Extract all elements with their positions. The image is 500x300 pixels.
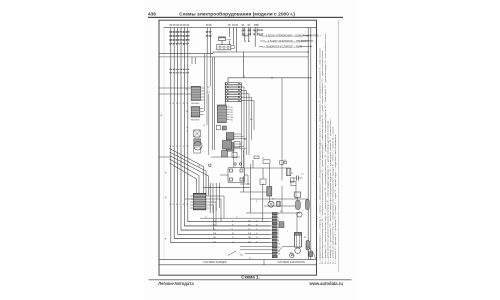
- electric motor M1 (circle in bracket): [194, 142, 202, 150]
- distributor cap circle: [290, 253, 294, 257]
- svg-text:438: 438: [148, 11, 156, 16]
- svg-text:13: 13: [186, 111, 188, 113]
- svg-text:1: 1: [278, 214, 279, 216]
- coil feed wire: [296, 212, 298, 232]
- wire ignition feed B: [236, 27, 238, 52]
- distributor to ECU verticals: [210, 183, 219, 213]
- internal bottom rail: [159, 264, 317, 266]
- ignition switch side pin: [231, 46, 234, 49]
- svg-text:Схема 1.: Схема 1.: [241, 275, 259, 280]
- svg-text:6: 6: [278, 231, 279, 233]
- connector X3 (centre dark tall): [217, 105, 229, 123]
- horizontal mid bus from frame: [159, 156, 170, 158]
- bus label dashes: [169, 30, 263, 44]
- idle valve capsule: [296, 200, 301, 209]
- injector capsule: [306, 200, 310, 210]
- internal top rail: [164, 26, 317, 28]
- terminal strip (stacked dark cells): [272, 213, 277, 258]
- diagonal lane-change wires: [170, 149, 209, 196]
- relay K (small box top centre): [219, 37, 226, 41]
- relay module 2: [222, 151, 228, 158]
- mid horizontal wire with junctions: [203, 186, 250, 188]
- svg-text:СИСТЕМА ЗАЖИГАНИЯ: СИСТЕМА ЗАЖИГАНИЯ: [277, 261, 305, 264]
- svg-text:10: 10: [278, 244, 280, 246]
- ECU connector (dark block): [190, 193, 209, 209]
- svg-text:— К БЛОКУ УПРАВЛЕНИЯ — КОМБИНА: — К БЛОКУ УПРАВЛЕНИЯ — КОМБИНАЦИЯ ПРИБ. …: [263, 34, 323, 37]
- staircase wire labels: [205, 217, 238, 244]
- wire run label 1: [263, 34, 323, 37]
- scattered component labels: [203, 87, 307, 261]
- svg-text:8: 8: [278, 237, 279, 239]
- svg-text:1 — аккумуляторная батарея; 2: 1 — аккумуляторная батарея; 2 — генерато…: [319, 142, 322, 264]
- svg-text:РАЗЪЕМ: РАЗЪЕМ: [191, 119, 200, 122]
- fuse block F: ladder of 6 fuses: [225, 78, 241, 105]
- svg-text:24 — датчик абсолютного давлен: 24 — датчик абсолютного давления во впус…: [326, 120, 329, 264]
- sensor symbols above bottom band: [228, 251, 294, 256]
- ignition coil: [294, 232, 301, 253]
- svg-text:З — зеленый; К — красный; О —: З — зеленый; К — красный; О — оранжевый;…: [334, 133, 337, 264]
- svg-text:10 — датчик положения коленчат: 10 — датчик положения коленчатого вала; …: [321, 145, 324, 264]
- X1 side labels: [186, 89, 188, 113]
- idle valve box: [294, 192, 301, 197]
- wire pair to ignition switch: [207, 27, 210, 53]
- right vertical double bus: [307, 27, 309, 259]
- svg-text:Ж: Ж: [183, 146, 185, 148]
- horizontal bus y56.9: [159, 56, 308, 58]
- stub wires below ignition bus: [192, 57, 195, 64]
- svg-text:2: 2: [278, 217, 279, 219]
- small box pair under X3: [216, 125, 220, 130]
- schematic outer frame: [159, 20, 317, 275]
- svg-text:Ж: Ж: [183, 204, 185, 206]
- relay block K2 (upper): [223, 141, 241, 150]
- svg-text:9: 9: [278, 240, 279, 242]
- relay module small: [232, 153, 237, 158]
- terminal strip pin numbers: [278, 214, 280, 256]
- sensor with pins: [286, 168, 290, 175]
- connector X4 hatched: [226, 133, 246, 140]
- mid small component row: [263, 160, 270, 164]
- distributor with cross wires: [228, 163, 245, 183]
- wires mid right: [244, 78, 309, 213]
- svg-text:Ж: Ж: [183, 103, 185, 105]
- labels on wire pair: [206, 32, 211, 38]
- small sensor circle: [297, 212, 302, 217]
- bus label dashes row2: [169, 69, 189, 74]
- secondary strip: [279, 222, 284, 228]
- svg-text:СИСТЕМА ЗАРЯДКИ: СИСТЕМА ЗАРЯДКИ: [203, 261, 227, 264]
- svg-text:РАЗЪЕМ: РАЗЪЕМ: [191, 102, 200, 105]
- svg-text:Ж: Ж: [232, 233, 234, 235]
- svg-text:Легион-Автодата: Легион-Автодата: [158, 281, 194, 286]
- small module plain: [194, 147, 201, 153]
- small module with cross: [194, 130, 200, 137]
- wire drops from connectors: [205, 54, 211, 155]
- svg-text:13: 13: [278, 254, 280, 256]
- wires from ECU right: [185, 196, 224, 230]
- main horizontal bus y52: [213, 52, 308, 54]
- svg-text:замок заж.: замок заж.: [217, 51, 227, 53]
- connector X5 hatched: [226, 143, 246, 152]
- svg-text:7: 7: [278, 234, 279, 236]
- svg-text:32 — контрольная лампа диагнос: 32 — контрольная лампа диагностики; 33 —…: [332, 126, 335, 264]
- connector X1 (dark, left column): [191, 86, 205, 105]
- wire labels near strip: [210, 220, 258, 243]
- capacitor C1: [297, 176, 299, 181]
- svg-text:— ГЕНЕРАТОР И СТАРТЕР — РЕЛЕ —: — ГЕНЕРАТОР И СТАРТЕР — РЕЛЕ —: [263, 45, 306, 48]
- labels above top rail: [170, 24, 259, 25]
- svg-text:12: 12: [186, 89, 188, 91]
- inner faint frame line: [163, 27, 165, 259]
- label underline 3: [262, 47, 299, 49]
- svg-text:Схемы электрооборудования (мод: Схемы электрооборудования (модели с 2000…: [179, 10, 295, 17]
- arc wire to corner: [306, 246, 316, 259]
- small box: [291, 181, 296, 185]
- svg-text:— К ЗАМКУ ЗАЖИГАНИЯ — ПРЕДОХРА: — К ЗАМКУ ЗАЖИГАНИЯ — ПРЕДОХРАНИТ. —: [265, 40, 317, 43]
- main horizontal bus y53.6: [159, 53, 213, 55]
- svg-text:—: —: [210, 224, 212, 226]
- top right feed wires: [243, 27, 257, 77]
- ignition coil primary resistor: [267, 187, 272, 197]
- bottom band separator: [159, 259, 317, 261]
- legend column (rotated description text): [319, 33, 338, 264]
- stub wires joining labels to bus: [259, 36, 311, 47]
- wire colour code labels on left bus: [169, 32, 190, 46]
- feeder wires into terminal strip: [171, 218, 272, 253]
- junction dots on right bus: [308, 35, 312, 79]
- labels on top right feeds: [242, 31, 258, 36]
- junction dot: [271, 77, 272, 78]
- extra mid wires: [240, 150, 270, 192]
- resistor block: [280, 161, 284, 165]
- horizontal bus y77.8: [228, 77, 311, 79]
- svg-text:КЗ —: КЗ —: [198, 166, 204, 168]
- lamp L1: [268, 201, 274, 207]
- wires around distributor: [213, 149, 248, 185]
- label underline 2: [264, 41, 300, 43]
- wire to strip from relay area: [250, 164, 252, 213]
- svg-text:27 — тахометр; 28 — реле старт: 27 — тахометр; 28 — реле стартера; 29 — …: [329, 118, 332, 264]
- svg-text:11: 11: [278, 247, 280, 249]
- bus mid-height labels: [169, 103, 188, 206]
- wire bus left: 6 vertical feed wires with staircase bends: [171, 27, 270, 242]
- ignition switch S1: [217, 45, 231, 50]
- tiny sensor group: [187, 126, 189, 133]
- bottom band divider: [263, 260, 265, 265]
- small module hatched: [194, 139, 201, 146]
- footer rule: [149, 278, 352, 281]
- wire from frame top to relay: [222, 27, 229, 44]
- dark element bottom right: [309, 252, 313, 257]
- plug capsule right: [306, 241, 309, 251]
- fuse output wires: [241, 84, 254, 168]
- wire ignition feed A: [232, 27, 234, 44]
- svg-text:www.autodata.ru: www.autodata.ru: [308, 281, 343, 286]
- lamp L2: [277, 201, 281, 206]
- page fold shadow line: [337, 20, 339, 272]
- extra mid verticals: [212, 57, 262, 222]
- connector X2 (dark, left column): [191, 107, 204, 122]
- pin labels for X3: [230, 107, 234, 122]
- HT lead diagonal: [277, 246, 295, 252]
- label underline 1: [262, 36, 302, 38]
- header rule: [148, 17, 343, 18]
- svg-text:температуры охлаждающей жидкос: температуры охлаждающей жидкости; 21 — г…: [324, 33, 327, 147]
- svg-text:16 — форсунки; 17 — регулятор: 16 — форсунки; 17 — регулятор холостого …: [324, 145, 327, 264]
- wire frame to connector X1: [159, 87, 191, 89]
- small fuse mid: [254, 156, 259, 159]
- svg-text:13 — комбинация приборов; 14 —: 13 — комбинация приборов; 14 — датчик ск…: [321, 50, 324, 146]
